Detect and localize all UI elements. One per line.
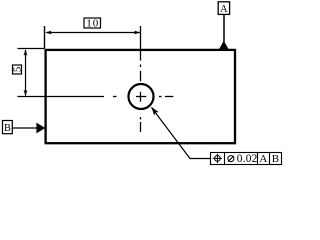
feature control frame outer <box>211 153 282 165</box>
centerline horizontal <box>18 96 174 98</box>
datum B triangle <box>36 123 45 134</box>
leader line to feature control frame <box>152 108 211 159</box>
centerline vertical <box>140 26 142 132</box>
hole circle <box>129 84 154 109</box>
dimension 5 arrow down <box>24 90 28 96</box>
svg-text:10: 10 <box>86 18 99 30</box>
svg-text:B: B <box>272 153 279 165</box>
datum B frame <box>3 121 13 134</box>
dimension 10 arrow right <box>134 31 140 35</box>
svg-text:0.02: 0.02 <box>237 153 258 165</box>
leader arrowhead <box>151 107 158 116</box>
dimension 5 extension line top <box>18 48 45 50</box>
fcf divider 1 <box>224 152 226 165</box>
dimension 10 basic box <box>84 18 101 28</box>
dimension 10 arrow left <box>45 31 51 35</box>
dimension 5 basic box <box>13 65 22 74</box>
svg-text:A: A <box>259 153 267 165</box>
datum B leader <box>13 127 37 129</box>
svg-text:5: 5 <box>11 67 23 72</box>
dimension 5 arrow up <box>24 49 28 55</box>
fcf divider 3 <box>269 152 271 165</box>
svg-text:A: A <box>220 4 228 15</box>
part outline rectangle <box>46 50 235 143</box>
datum A stem <box>223 14 225 42</box>
diameter symbol <box>228 156 234 162</box>
datum A triangle <box>219 41 229 50</box>
dimension 10 extension line left <box>44 26 46 49</box>
svg-text:B: B <box>4 123 11 134</box>
position symbol <box>213 154 222 163</box>
datum A frame <box>218 2 229 15</box>
dimension 10 line <box>47 32 141 34</box>
fcf divider 2 <box>257 152 259 165</box>
dimension 5 line <box>25 50 27 96</box>
